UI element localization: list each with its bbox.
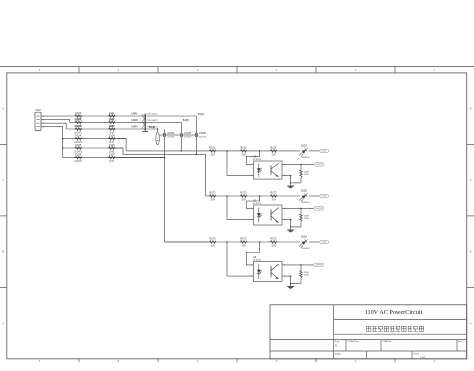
svg-text:R173: R173 [210, 238, 217, 241]
svg-text:10R: 10R [241, 246, 246, 248]
svg-text:TVR-14621: TVR-14621 [146, 114, 158, 116]
svg-text:GREEN: GREEN [302, 202, 310, 204]
svg-text:R172: R172 [271, 192, 278, 195]
svg-text:10R: 10R [210, 200, 215, 202]
svg-text:R173: R173 [271, 238, 278, 241]
svg-text:GNR3: GNR3 [131, 126, 138, 129]
svg-text:10R: 10R [241, 155, 246, 157]
svg-text:Engr: Engr [335, 340, 340, 343]
svg-text:C1047: C1047 [184, 132, 192, 135]
svg-text:R172: R172 [241, 192, 248, 195]
svg-text:A: A [2, 321, 4, 325]
svg-text:GNR2: GNR2 [131, 119, 138, 122]
svg-text:10R: 10R [271, 246, 276, 248]
svg-text:222/2kV: 222/2kV [167, 137, 175, 139]
svg-text:F105: F105 [75, 144, 81, 147]
svg-text:A: A [469, 321, 471, 325]
svg-text:10D471: 10D471 [74, 161, 83, 163]
svg-text:B1(4): B1(4) [198, 113, 204, 116]
svg-text:F101: F101 [75, 112, 81, 115]
svg-text:L101: L101 [109, 112, 115, 115]
svg-text:B: B [2, 250, 4, 254]
svg-text:PCB&P No.: PCB&P No. [348, 341, 360, 343]
svg-text:222/2kV: 222/2kV [184, 137, 192, 139]
svg-text:GREEN: GREEN [302, 157, 310, 159]
svg-text:2mH: 2mH [109, 161, 114, 163]
svg-text:F104: F104 [75, 134, 81, 137]
svg-text:C1046: C1046 [167, 132, 175, 135]
svg-text:R171: R171 [271, 147, 278, 150]
svg-text:LED1: LED1 [301, 145, 308, 148]
svg-text:R172: R172 [210, 192, 217, 195]
svg-text:L104: L104 [109, 134, 115, 137]
svg-text:TVR-14621: TVR-14621 [146, 120, 158, 122]
svg-text:B3(8): B3(8) [149, 126, 155, 129]
svg-text:F103: F103 [75, 125, 81, 128]
svg-text:EL357N: EL357N [253, 159, 261, 161]
svg-text:10R: 10R [210, 155, 215, 157]
svg-text:R173: R173 [241, 238, 248, 241]
svg-text:L106: L106 [109, 153, 115, 156]
svg-text:GNR1: GNR1 [131, 113, 138, 116]
svg-text:Model: Model [335, 354, 341, 356]
svg-text:LED2: LED2 [301, 190, 308, 193]
svg-text:110VFB2: 110VFB2 [315, 208, 322, 210]
svg-text:10R: 10R [271, 155, 276, 157]
svg-text:GREEN: GREEN [302, 248, 310, 250]
svg-text:110VFB3: 110VFB3 [315, 265, 322, 267]
svg-text:10R: 10R [241, 200, 246, 202]
svg-text:R171: R171 [241, 147, 248, 150]
svg-text:LED3: LED3 [301, 236, 308, 239]
svg-text:222/2kV: 222/2kV [199, 137, 207, 139]
svg-text:L102: L102 [109, 118, 115, 121]
svg-text:110V AC PowerCircuit: 110V AC PowerCircuit [365, 309, 423, 316]
svg-text:B: B [469, 250, 471, 254]
svg-text:10R: 10R [271, 200, 276, 202]
svg-text:CMM No.: CMM No. [383, 341, 393, 343]
svg-text:110VFB1: 110VFB1 [315, 164, 322, 166]
svg-text:EL357N: EL357N [253, 260, 261, 262]
svg-text:EL357N: EL357N [253, 203, 261, 205]
svg-text:B2(6): B2(6) [183, 119, 189, 122]
svg-text:CN3: CN3 [35, 109, 41, 112]
svg-text:R171: R171 [210, 147, 217, 150]
svg-text:10R: 10R [210, 246, 215, 248]
svg-text:F102: F102 [75, 118, 81, 121]
svg-text:F106: F106 [75, 153, 81, 156]
svg-text:C1048: C1048 [199, 132, 207, 135]
svg-text:L103: L103 [109, 125, 115, 128]
svg-text:L105: L105 [109, 144, 115, 147]
svg-text:1 of 1: 1 of 1 [420, 357, 426, 359]
svg-text:Sheet: Sheet [414, 352, 420, 355]
